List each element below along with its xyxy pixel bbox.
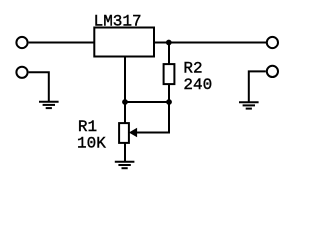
wire U1 adj pin down to R1 bbox=[124, 57, 126, 124]
node B junction bbox=[166, 99, 172, 105]
svg-text:LM317: LM317 bbox=[94, 12, 142, 30]
wire wiper horizontal bbox=[136, 132, 171, 134]
potentiometer R1 body bbox=[119, 123, 129, 143]
svg-text:R2: R2 bbox=[183, 60, 202, 78]
svg-text:240: 240 bbox=[183, 76, 212, 94]
op-amp U1 LM317 body bbox=[94, 28, 154, 57]
wire input to U1 bbox=[29, 42, 94, 44]
wire J2 to left ground bbox=[29, 72, 49, 101]
ground G1 left bbox=[39, 102, 59, 108]
terminal J3 (output +) bbox=[267, 37, 278, 48]
svg-text:R1: R1 bbox=[78, 118, 97, 136]
wire node B down to wiper bbox=[168, 102, 170, 133]
node output junction bbox=[166, 40, 172, 46]
wire R2 bottom to node B bbox=[168, 84, 170, 102]
wire R1 bottom to ground bbox=[124, 143, 126, 162]
wire J4 to right ground bbox=[249, 71, 266, 102]
terminal J1 (input +) bbox=[16, 37, 27, 48]
wire node A to node B bbox=[125, 101, 169, 103]
potentiometer R1 wiper arrow bbox=[130, 129, 137, 137]
resistor R2 body bbox=[164, 64, 175, 84]
ground G3 under R1 bbox=[115, 162, 135, 168]
node A junction bbox=[122, 99, 128, 105]
wire U1 output to J3 bbox=[154, 42, 266, 44]
terminal J4 (output ground) bbox=[267, 66, 278, 77]
wire junction to R2 top bbox=[168, 43, 170, 65]
terminal J2 (input ground) bbox=[16, 67, 27, 78]
ground G2 right bbox=[239, 102, 259, 108]
svg-text:10K: 10K bbox=[77, 134, 106, 152]
